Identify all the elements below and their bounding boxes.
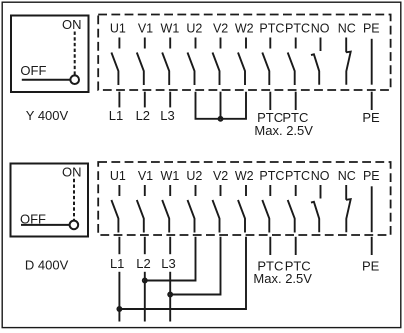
svg-text:PTC: PTC <box>285 169 310 183</box>
svg-text:U1: U1 <box>110 22 126 36</box>
wire PTC-1 below box (D) <box>269 237 271 255</box>
svg-text:NC: NC <box>338 169 356 183</box>
svg-text:PE: PE <box>362 110 380 125</box>
contact PTC (D box) <box>288 185 296 233</box>
svg-text:Max. 2.5V: Max. 2.5V <box>254 123 313 138</box>
svg-text:L3: L3 <box>160 108 174 123</box>
wire U1 to L1 (Y) <box>118 92 120 108</box>
svg-text:PTC: PTC <box>259 22 284 36</box>
contact NO (D box) <box>311 185 321 232</box>
svg-text:PE: PE <box>363 169 380 183</box>
contact V1 (D box) <box>137 185 145 233</box>
contact PTC (D box) <box>262 185 270 233</box>
contact W1 (D box) <box>162 185 170 233</box>
wire V1 to L2 (Y) <box>144 92 146 108</box>
wire V2 to star point (Y) <box>220 92 222 119</box>
wire U1 to L1 (D) <box>118 237 120 254</box>
switch S2 OFF-position lever <box>21 224 70 226</box>
svg-text:ON: ON <box>62 17 82 32</box>
svg-text:NO: NO <box>311 22 330 36</box>
svg-text:Max. 2.5V: Max. 2.5V <box>253 271 312 286</box>
svg-text:PTC: PTC <box>285 22 310 36</box>
wire L3 feeder down (D) <box>169 272 171 322</box>
wire PE below box (D) <box>371 237 373 255</box>
PE through-wire (Y box) <box>371 39 373 85</box>
svg-text:V1: V1 <box>138 22 153 36</box>
svg-text:NC: NC <box>338 22 356 36</box>
contact PTC (Y box) <box>288 38 296 86</box>
wire V2 to L3 bridge (D) <box>170 237 220 295</box>
wire PE below box (Y) <box>371 92 373 110</box>
svg-text:V1: V1 <box>138 169 153 183</box>
PE through-wire (D box) <box>371 186 373 232</box>
junction dot V2/L3 (D) <box>168 293 172 297</box>
contact V2 (Y box) <box>213 38 221 86</box>
svg-text:D 400V: D 400V <box>25 258 69 273</box>
svg-text:V2: V2 <box>213 169 228 183</box>
contact U1 (Y box) <box>111 38 119 86</box>
switch S1 pivot <box>70 75 79 84</box>
terminal box (Y), dashed <box>98 15 390 91</box>
svg-text:W2: W2 <box>235 22 254 36</box>
svg-text:L1: L1 <box>110 256 124 271</box>
svg-text:L2: L2 <box>136 256 150 271</box>
contact U1 (D box) <box>111 185 119 233</box>
svg-text:NO: NO <box>311 169 330 183</box>
svg-text:OFF: OFF <box>20 212 46 227</box>
contact W1 (Y box) <box>162 38 170 86</box>
terminal box (D), dashed <box>98 162 390 235</box>
svg-text:W1: W1 <box>161 22 180 36</box>
wire W2 to L1 bridge (D) <box>119 237 246 309</box>
svg-text:OFF: OFF <box>20 63 46 78</box>
svg-text:W2: W2 <box>235 169 254 183</box>
wire V1 to L2 (D) <box>144 237 146 254</box>
switch S2 pivot <box>70 221 79 230</box>
wire PTC-2 below box (Y) <box>295 92 297 110</box>
contact U2 (Y box) <box>188 38 196 86</box>
contact NC (D box) <box>346 185 351 232</box>
contact NC (Y box) <box>346 38 351 85</box>
svg-text:PTC: PTC <box>259 169 284 183</box>
svg-text:PE: PE <box>363 22 380 36</box>
svg-text:ON: ON <box>62 164 82 179</box>
svg-text:L2: L2 <box>136 108 150 123</box>
contact U2 (D box) <box>188 185 196 233</box>
contact V1 (Y box) <box>137 38 145 86</box>
switch S2 enclosure (D) <box>11 164 89 237</box>
junction dot U2/L2 (D) <box>143 279 147 283</box>
contact NO (Y box) <box>311 38 321 85</box>
svg-text:L1: L1 <box>109 108 123 123</box>
star-point bridge U2-V2-W2 (Y) <box>196 92 247 119</box>
svg-text:V2: V2 <box>213 22 228 36</box>
svg-text:U1: U1 <box>110 169 126 183</box>
wire U2 to L2 bridge (D) <box>145 237 196 281</box>
wire PTC-1 below box (Y) <box>269 92 271 110</box>
svg-text:L3: L3 <box>161 256 175 271</box>
switch S1 ON-position dashed actuator <box>74 32 76 76</box>
svg-text:Y 400V: Y 400V <box>26 108 69 123</box>
junction dot star point (Y) <box>219 117 223 121</box>
svg-text:U2: U2 <box>186 169 202 183</box>
switch S2 ON-position dashed actuator <box>73 179 75 221</box>
svg-text:U2: U2 <box>186 22 202 36</box>
switch S1 OFF-position lever <box>22 79 71 81</box>
contact PTC (Y box) <box>262 38 270 86</box>
svg-text:PE: PE <box>362 259 380 274</box>
wire W1 to L3 (Y) <box>169 92 171 108</box>
wire L1 feeder down (D) <box>118 272 120 322</box>
wire PTC-2 below box (D) <box>295 237 297 255</box>
switch S1 enclosure (Y) <box>11 16 89 93</box>
wire W1 to L3 (D) <box>169 237 171 254</box>
contact W2 (D box) <box>238 185 246 233</box>
contact V2 (D box) <box>213 185 221 233</box>
svg-text:W1: W1 <box>161 169 180 183</box>
junction dot W2/L1 (D) <box>117 307 121 311</box>
contact W2 (Y box) <box>238 38 246 86</box>
wire L2 feeder down (D) <box>144 272 146 322</box>
